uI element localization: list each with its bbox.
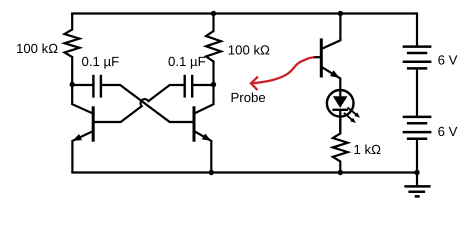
wire: LED cathode to R3 xyxy=(339,110,341,134)
capacitor C2 plates xyxy=(185,75,193,98)
svg-text:100 kΩ: 100 kΩ xyxy=(16,41,58,56)
junction dot: battery/ground xyxy=(414,170,419,175)
junction node B xyxy=(211,82,216,87)
probe wire (red) xyxy=(251,57,314,83)
probe arrowhead (red) xyxy=(251,77,258,90)
battery BT1 leads xyxy=(416,14,418,46)
wire: +V top rail xyxy=(71,12,418,14)
wire: C1 right plate to Q2 base (diagonal) xyxy=(101,85,194,122)
svg-text:0.1 µF: 0.1 µF xyxy=(168,54,206,69)
junction dot: R3 bottom xyxy=(338,170,343,175)
LED triangle xyxy=(333,96,348,108)
wire: node B down to Q2 collector xyxy=(194,85,214,114)
svg-text:6 V: 6 V xyxy=(438,124,458,139)
svg-text:Probe: Probe xyxy=(231,90,266,105)
LED D1 cathode bar xyxy=(332,109,348,111)
wire: BT2 to ground node xyxy=(416,139,418,173)
transistor Q2 emitter xyxy=(194,131,211,173)
LED light arrow 2 head xyxy=(350,118,356,123)
transistor Q3 bar xyxy=(320,38,323,77)
LED D1 circle xyxy=(327,90,354,117)
resistor R2 100k (with leads) xyxy=(206,14,221,85)
wire: Q1 base to C2 left plate (diagonal with hop) xyxy=(93,85,185,122)
capacitor C1 plates xyxy=(93,75,101,98)
LED light arrow 1 head xyxy=(354,112,360,117)
svg-text:1 kΩ: 1 kΩ xyxy=(354,142,382,157)
transistor Q2 bar xyxy=(193,106,196,141)
wire: node A to C1 left plate xyxy=(72,84,93,86)
transistor Q1 bar xyxy=(92,106,95,141)
battery BT2 plates xyxy=(403,117,432,139)
LED light arrow 1 shaft xyxy=(348,108,357,115)
wire: node A down to Q1 collector xyxy=(72,85,93,114)
svg-text:0.1 µF: 0.1 µF xyxy=(82,54,120,69)
svg-text:100 kΩ: 100 kΩ xyxy=(228,43,270,58)
svg-text:6 V: 6 V xyxy=(438,53,458,68)
transistor Q1 emitter arrowhead xyxy=(72,134,82,141)
transistor Q2 emitter arrowhead xyxy=(202,134,212,141)
battery BT1 plates xyxy=(403,47,432,69)
junction dot: Q2 emitter bottom xyxy=(209,170,214,175)
transistor Q1 emitter xyxy=(72,131,93,173)
transistor Q3 emitter xyxy=(321,67,340,97)
resistor R1 100k (with leads) xyxy=(65,14,80,85)
wire: Q3 base stub xyxy=(313,56,321,58)
junction dot: R2 top xyxy=(211,11,216,16)
wire: bottom ground rail xyxy=(71,171,418,173)
junction dot: Q3 collector top xyxy=(338,11,343,16)
resistor R3 1k (with leads) xyxy=(333,116,348,173)
wire: BT1 to BT2 xyxy=(416,68,418,115)
ground symbol xyxy=(404,173,430,197)
wire: C2 right plate to node B xyxy=(192,84,213,86)
junction node A xyxy=(70,82,75,87)
wire: top rail to Q3 collector xyxy=(321,14,340,50)
transistor Q3 emitter arrowhead xyxy=(330,70,340,78)
LED light arrow 2 shaft xyxy=(344,113,352,120)
